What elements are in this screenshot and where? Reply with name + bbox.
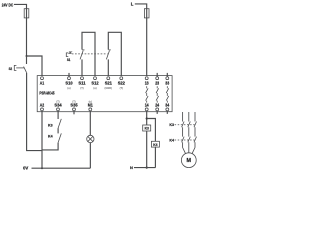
svg-text:L: L	[131, 1, 134, 6]
wire branch to A1	[27, 56, 43, 77]
terminal 14	[145, 108, 148, 111]
svg-text:K3: K3	[48, 122, 53, 127]
terminal 33	[166, 77, 169, 80]
motor M	[181, 153, 196, 168]
svg-text:13: 13	[145, 81, 150, 86]
svg-text:23: 23	[155, 81, 160, 86]
output contacts 23-24	[156, 86, 159, 102]
svg-text:A2: A2	[40, 103, 45, 108]
svg-text:PSR-MC45: PSR-MC45	[39, 90, 55, 95]
terminal S22	[120, 77, 123, 80]
emergency stop actuator S1	[66, 53, 68, 57]
terminal S34	[57, 108, 60, 111]
svg-text:(T): (T)	[56, 99, 59, 103]
node junction 24V branch	[26, 55, 28, 57]
stub 24	[156, 111, 158, 114]
terminal 13	[145, 77, 148, 80]
wire branch to K4 coil	[147, 119, 156, 168]
svg-text:A1: A1	[40, 81, 45, 86]
svg-text:K4: K4	[48, 134, 53, 139]
terminal M1	[89, 108, 92, 111]
N rail	[134, 167, 155, 169]
node junction A2/0V	[41, 167, 43, 169]
wire 14 down to N	[146, 111, 148, 168]
svg-text:S11: S11	[78, 81, 86, 86]
stub above S10	[68, 73, 70, 77]
three phase lines	[182, 112, 184, 122]
terminal 23	[156, 77, 159, 80]
terminal S12	[94, 77, 97, 80]
feedback contact K3	[57, 111, 59, 119]
wire L feed to terminal 13	[135, 4, 147, 77]
svg-text:(u): (u)	[89, 99, 92, 103]
indicator lamp wire	[89, 111, 91, 136]
svg-text:S10: S10	[65, 81, 73, 86]
fuse F1	[24, 9, 29, 18]
svg-text:(u): (u)	[93, 86, 96, 90]
pushbutton S2	[26, 56, 28, 64]
0V rail	[32, 167, 91, 169]
output contacts 33-34	[166, 86, 169, 102]
svg-text:S12: S12	[91, 81, 99, 86]
stub S35	[73, 111, 75, 115]
svg-text:33: 33	[165, 81, 170, 86]
fuse F2	[144, 9, 149, 18]
output contacts 13-14	[146, 86, 149, 102]
svg-text:M: M	[187, 158, 192, 164]
terminal A1	[41, 77, 44, 80]
wire A2 down to 0V	[41, 111, 43, 168]
S1 contact channel 2 (S21-S22 loop)	[107, 59, 109, 76]
relay block PSR-MC45	[37, 76, 172, 112]
wire feedback to A2 line	[42, 143, 58, 150]
svg-text:K3: K3	[145, 127, 149, 131]
contactor coil K4	[151, 141, 159, 147]
terminal S21	[107, 77, 110, 80]
S1 contact channel 1 (S11-S12 loop)	[81, 59, 83, 76]
svg-text:34: 34	[165, 103, 170, 108]
terminal S10	[68, 77, 71, 80]
terminal 34	[166, 108, 169, 111]
feedback contact K4	[57, 128, 59, 133]
terminal S11	[81, 77, 84, 80]
node junction 14 branch	[146, 117, 148, 119]
wire 24V feed horizontal and down to junction	[14, 4, 27, 56]
svg-text:(T): (T)	[120, 86, 123, 90]
svg-text:(T): (T)	[80, 86, 83, 90]
svg-text:S2: S2	[9, 67, 13, 71]
svg-text:24: 24	[155, 103, 160, 108]
svg-text:N: N	[130, 165, 133, 170]
svg-text:(T): (T)	[72, 99, 75, 103]
contactor coil K3	[143, 125, 151, 131]
wires into motor	[183, 148, 195, 154]
svg-text:S21: S21	[105, 81, 113, 86]
svg-text:K4: K4	[169, 137, 174, 142]
svg-text:14: 14	[145, 103, 150, 108]
svg-text:S1: S1	[67, 58, 71, 62]
stub 34	[166, 111, 168, 114]
indicator lamp	[87, 135, 94, 142]
node junction K3/N rail	[146, 167, 148, 169]
terminal S35	[73, 108, 76, 111]
svg-text:(GND): (GND)	[105, 86, 113, 90]
mechanical link dashed	[72, 53, 108, 55]
svg-text:(u): (u)	[67, 86, 70, 90]
svg-text:K4: K4	[153, 143, 157, 147]
terminal 24	[156, 108, 159, 111]
wire lamp to 0V	[89, 143, 91, 169]
svg-text:0V: 0V	[23, 166, 28, 171]
svg-text:S22: S22	[118, 81, 126, 86]
terminal A2	[41, 108, 44, 111]
wire S2 down to feedback loop	[27, 73, 42, 151]
svg-text:K3: K3	[169, 122, 174, 127]
svg-text:24V DC: 24V DC	[2, 2, 13, 7]
